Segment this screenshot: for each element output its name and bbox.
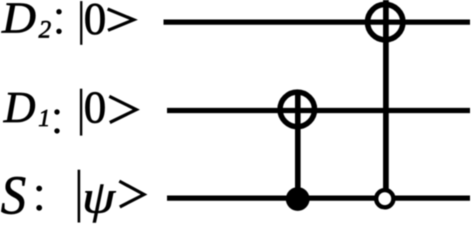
svg-text:D: D	[3, 83, 36, 132]
svg-text:0: 0	[84, 0, 107, 44]
ket bar line 3	[78, 170, 81, 223]
ket chevron line 1	[108, 9, 134, 30]
svg-text:D: D	[1, 0, 36, 42]
wire vertical connector from gate X2 through D1 to open control on S	[383, 0, 389, 190]
ket bar line 1	[80, 1, 82, 45]
svg-text:0: 0	[84, 82, 107, 132]
svg-text:ψ: ψ	[82, 171, 116, 223]
open (negated) control circle on wire S	[376, 190, 393, 207]
label colon line 3	[36, 186, 42, 192]
wire S (bottom qubit line)	[167, 195, 470, 200]
svg-text:1: 1	[38, 106, 50, 132]
wire D2 (top qubit line)	[164, 20, 471, 25]
CNOT target X1 on wire D1	[280, 92, 315, 127]
wire vertical connector from gate X1 to control on S	[295, 91, 301, 200]
ket chevron line 3	[119, 181, 144, 207]
label colon line 1	[56, 9, 61, 14]
filled control dot on wire S	[286, 187, 310, 211]
ket chevron line 2	[109, 96, 136, 122]
svg-text:2: 2	[39, 16, 52, 43]
CNOT target X2 on wire D2	[368, 4, 403, 39]
wire D1 (middle qubit line)	[167, 108, 470, 113]
ket bar line 2	[80, 89, 82, 136]
svg-text:S: S	[1, 166, 26, 223]
label colon line 2	[54, 109, 59, 114]
